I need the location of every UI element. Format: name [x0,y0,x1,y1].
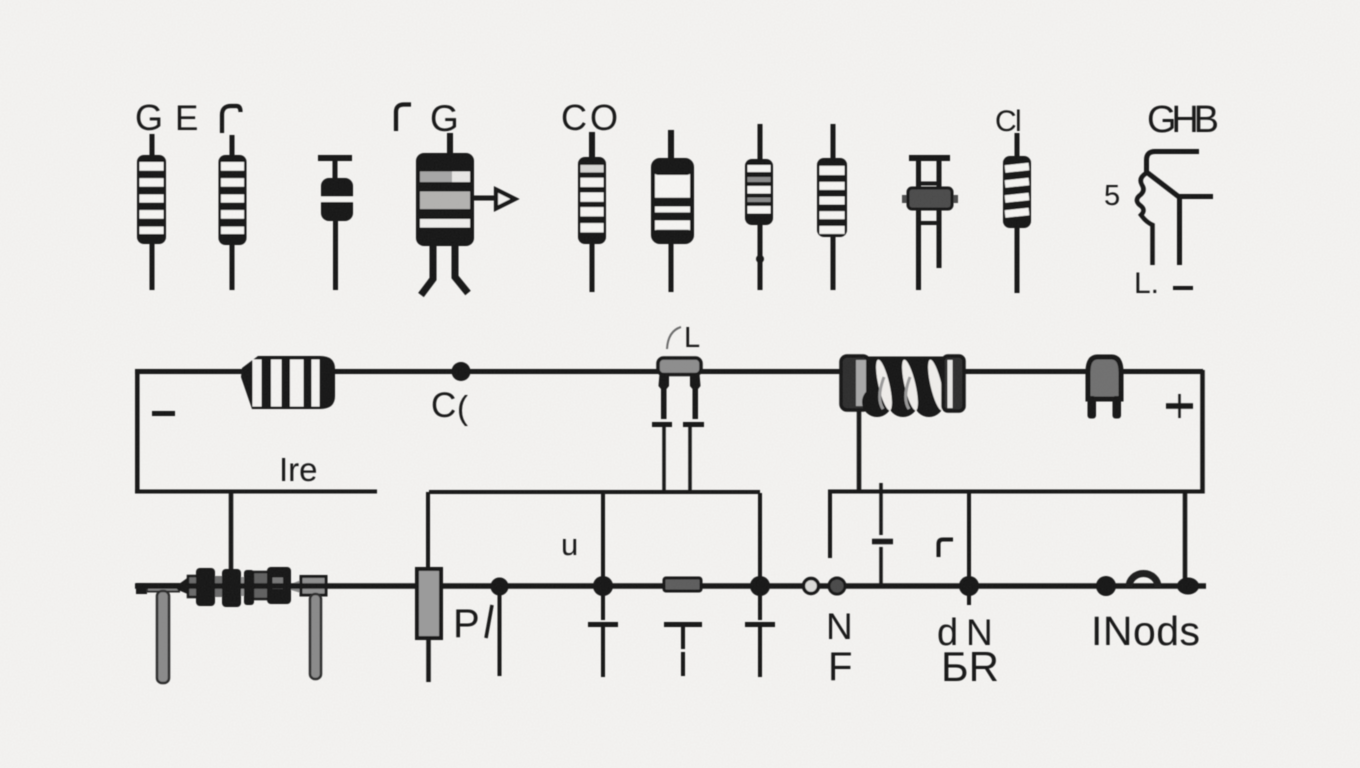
resistor R1 [137,134,166,290]
label L [667,322,700,354]
wire Ire horizontal [135,490,377,494]
label Cc [431,386,468,426]
capacitor below 760 [745,593,775,677]
node dot after P1 [491,578,509,596]
wire from Ire rail down [229,491,234,571]
resistor R3 [578,132,606,292]
resistor R5 [745,124,773,290]
wire from coil down [857,409,862,490]
minus terminal [152,411,175,416]
capacitor at 881 [872,483,893,584]
resistor R4 [653,130,692,292]
label Pl [453,602,492,646]
resistor R7 [1003,133,1031,293]
diode D1 [318,158,353,290]
stub below 969 [967,593,971,605]
wire down at 969 [967,493,971,581]
wire right vertical [1200,370,1205,494]
middle wire box 1 [429,490,760,494]
label gamma [939,540,954,558]
capacitor below 603 [588,593,618,677]
wire top rail [135,369,1203,374]
resistor P1 [417,569,441,682]
node dot 1106 [1096,576,1116,596]
jumper arc [1129,574,1158,588]
trimmer capacitor CT1 [902,158,958,290]
resistor R10 on top rail [241,356,335,409]
transistor Q1 [1104,152,1213,301]
wire below node [498,594,502,676]
wire down at 603 [601,493,605,581]
label GE for resistor R1 [135,97,198,138]
plus terminal [1166,394,1193,418]
label for potentiometer P1 top row [396,98,459,139]
middle wire box 2 [828,490,1204,494]
filled node circle [829,578,845,594]
capacitor L on top rail [652,358,704,492]
stub wire down at 830 [828,493,832,558]
capacitor below R11 [664,625,702,677]
node dot 760 [750,576,770,596]
label N F [826,606,853,689]
label for resistor R2 [222,106,241,133]
bottom rail [135,583,1206,589]
wire to P1 [426,492,430,571]
ferrite bead assembly on bottom rail [136,567,326,683]
label dN [937,612,993,654]
potentiometer with wiper arrow [416,133,515,295]
wire down at 760 [758,493,762,581]
label CO for resistor R3 [561,97,618,138]
diode D2 on top rail [1088,357,1122,419]
resistor R11 on bottom rail [664,578,701,591]
wire right lower vertical [1183,493,1188,580]
node dot right end [1177,578,1199,595]
open node circle [804,579,819,594]
resistor R2 [219,135,247,290]
node dot 603 [593,576,613,596]
inductor coil on top rail [841,356,964,417]
wire left vertical [135,370,140,494]
node Cc junction dot [452,362,471,381]
label Cl for resistor R7 [995,105,1022,138]
node dot 969 [959,576,979,596]
resistor R6 [817,124,847,290]
